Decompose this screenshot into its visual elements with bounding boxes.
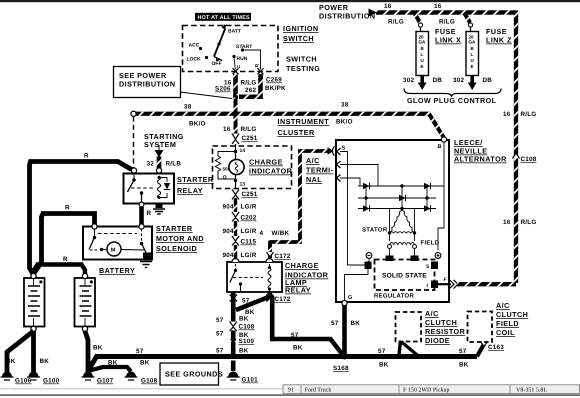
wire relay output right leg merge bbox=[236, 292, 270, 310]
ground G106 bbox=[1, 372, 32, 385]
wire R/LG to regulator F (striped) bbox=[457, 282, 516, 286]
wire BK below bus to G101 bbox=[231, 352, 236, 371]
terminal minus circle bbox=[366, 253, 372, 259]
svg-text:R/LG: R/LG bbox=[388, 19, 404, 26]
svg-text:CLUTCH: CLUTCH bbox=[496, 310, 528, 319]
wire R relay to starter motor bbox=[139, 207, 144, 225]
svg-text:LG/R: LG/R bbox=[241, 204, 257, 211]
splice S168 bbox=[333, 354, 349, 373]
splice S206 bbox=[215, 86, 238, 101]
svg-text:U: U bbox=[421, 58, 424, 63]
footer hairline left bbox=[0, 387, 283, 390]
regulator pad I / F output bbox=[427, 277, 447, 289]
svg-text:C163: C163 bbox=[488, 344, 504, 351]
label FUSE LINK Z bbox=[486, 27, 512, 45]
connector C202 bbox=[232, 212, 257, 222]
wire BK battery2 to G107 bbox=[85, 331, 88, 372]
solenoid contact right bbox=[141, 229, 143, 243]
svg-text:BK: BK bbox=[293, 345, 303, 352]
label POWER DISTRIBUTION bbox=[319, 3, 376, 21]
wire BK/PK from ignition R (striped) bbox=[239, 74, 261, 97]
relay diode bbox=[159, 178, 167, 198]
svg-text:32: 32 bbox=[147, 161, 155, 168]
ground below relay coil bbox=[153, 203, 165, 214]
svg-text:C202: C202 bbox=[241, 215, 257, 222]
wire pin13 out of cluster bbox=[235, 181, 237, 192]
wire 38 BK/O horizontal (striped) bbox=[133, 114, 444, 138]
node B terminal bbox=[438, 137, 447, 150]
svg-text:BK: BK bbox=[108, 360, 118, 367]
svg-text:57: 57 bbox=[242, 298, 250, 305]
svg-text:V8-351 5.8L: V8-351 5.8L bbox=[516, 388, 547, 394]
svg-text:Ω: Ω bbox=[223, 175, 227, 181]
label LEECE/NEVILLE ALTERNATOR bbox=[454, 138, 507, 164]
svg-text:CLUSTER: CLUSTER bbox=[278, 128, 315, 137]
svg-text:L: L bbox=[421, 52, 424, 57]
svg-text:C108: C108 bbox=[521, 156, 537, 163]
svg-text:DISTRIBUTION: DISTRIBUTION bbox=[119, 80, 176, 89]
svg-text:BATTERY: BATTERY bbox=[99, 266, 135, 275]
svg-text:CHARGE: CHARGE bbox=[249, 158, 283, 167]
field winding bbox=[386, 235, 419, 261]
stator phase stubs bbox=[390, 209, 415, 234]
label CHARGE INDICATOR LAMP RELAY bbox=[285, 261, 329, 295]
svg-text:OFF: OFF bbox=[212, 61, 222, 67]
wire BK battery1 to G106 bbox=[7, 331, 34, 372]
svg-text:BATT: BATT bbox=[228, 29, 241, 35]
wire tap2 into rectifier bbox=[340, 165, 378, 187]
svg-text:TERMI-: TERMI- bbox=[306, 166, 334, 175]
wire B terminal to rectifier and + bbox=[438, 142, 444, 250]
svg-text:STATOR: STATOR bbox=[362, 227, 388, 234]
svg-text:16: 16 bbox=[503, 219, 511, 226]
label STARTER MOTOR AND SOLENOID bbox=[156, 224, 204, 253]
label A/C TERMINAL bbox=[306, 156, 334, 184]
svg-text:REGULATOR: REGULATOR bbox=[374, 293, 415, 300]
svg-text:C251: C251 bbox=[242, 191, 258, 198]
svg-text:SWITCH: SWITCH bbox=[283, 34, 314, 43]
wire 904 LG/R C115-relay (striped) bbox=[234, 245, 237, 262]
wire branch to fuse link X bbox=[414, 13, 421, 32]
svg-text:C172: C172 bbox=[275, 296, 291, 303]
wire F output to connector bbox=[438, 283, 451, 285]
solenoid ground pad bbox=[143, 253, 151, 260]
svg-text:R: R bbox=[255, 64, 261, 68]
BATT arm to pivot bbox=[214, 29, 225, 57]
svg-text:904: 904 bbox=[223, 228, 235, 235]
svg-text:302: 302 bbox=[453, 77, 465, 84]
svg-text:LG/R: LG/R bbox=[241, 228, 257, 235]
BATT arrow bbox=[224, 25, 226, 31]
svg-text:S206: S206 bbox=[215, 86, 231, 93]
wire R battery to starter motor bbox=[34, 214, 95, 275]
wire tap3 into rectifier bbox=[340, 178, 360, 186]
svg-text:INDICATOR: INDICATOR bbox=[249, 167, 293, 176]
connector at A/C terminal bbox=[328, 147, 334, 155]
diodes row3 bbox=[363, 205, 370, 212]
svg-text:57: 57 bbox=[216, 348, 224, 355]
svg-text:STARTER: STARTER bbox=[177, 175, 214, 184]
glow plug control brace bbox=[404, 89, 501, 98]
svg-text:C115: C115 bbox=[241, 239, 257, 246]
svg-text:SOLID STATE: SOLID STATE bbox=[382, 273, 427, 280]
svg-text:57: 57 bbox=[136, 348, 144, 355]
A/C clutch field coil dashed box bbox=[468, 312, 493, 343]
connector C108 on right wire bbox=[513, 153, 537, 163]
svg-text:C269: C269 bbox=[266, 77, 282, 84]
svg-text:57: 57 bbox=[216, 331, 224, 338]
callout pointer line to S206 bbox=[180, 92, 232, 99]
fusible link 32 R/LB (striped bar) bbox=[157, 157, 161, 170]
terminal X left bbox=[233, 68, 239, 74]
svg-text:38: 38 bbox=[184, 104, 192, 111]
svg-text:R/LB: R/LB bbox=[166, 161, 182, 168]
svg-text:BK: BK bbox=[239, 348, 249, 355]
wire BK C108 to S100 bbox=[231, 331, 236, 339]
svg-text:57: 57 bbox=[459, 348, 467, 355]
svg-text:F: F bbox=[444, 277, 447, 283]
label CHARGE INDICATOR bbox=[249, 158, 293, 176]
svg-text:BK: BK bbox=[140, 360, 150, 367]
svg-text:14: 14 bbox=[240, 148, 246, 154]
svg-text:GA: GA bbox=[419, 40, 427, 45]
wire fuse X output arrow bbox=[418, 76, 427, 91]
instrument cluster dashed box bbox=[213, 146, 292, 189]
ignition switch dashed box bbox=[183, 26, 279, 72]
connector C251 top bbox=[232, 134, 258, 145]
wire notch to resistor diode bbox=[399, 342, 420, 357]
connector C115 bbox=[232, 236, 256, 246]
svg-text:16: 16 bbox=[503, 111, 511, 118]
svg-text:G: G bbox=[348, 295, 352, 301]
svg-text:BK: BK bbox=[459, 362, 469, 369]
SEE GROUNDS callout box bbox=[160, 363, 223, 385]
connector C172 (into relay coil) bbox=[267, 252, 291, 260]
wire BK G107 to G108 bbox=[88, 367, 131, 372]
svg-text:ALTERNATOR: ALTERNATOR bbox=[454, 155, 507, 164]
label SWITCH TESTING bbox=[286, 55, 320, 74]
svg-text:G101: G101 bbox=[242, 377, 259, 384]
regulator pad A (left) bbox=[365, 262, 372, 270]
svg-text:G100: G100 bbox=[43, 378, 60, 385]
svg-text:START: START bbox=[236, 44, 252, 50]
svg-text:R: R bbox=[63, 256, 68, 263]
wire R/LG right vertical (striped) bbox=[514, 11, 518, 283]
svg-text:G108: G108 bbox=[141, 378, 158, 385]
svg-text:S100: S100 bbox=[239, 338, 255, 345]
svg-text:302: 302 bbox=[403, 77, 415, 84]
svg-text:A/C: A/C bbox=[496, 301, 510, 310]
svg-text:ACC: ACC bbox=[189, 43, 200, 49]
svg-text:G106: G106 bbox=[15, 378, 32, 385]
wire riser to C163 bbox=[477, 344, 484, 357]
connector C163 bbox=[481, 342, 505, 352]
SEE POWER DISTRIBUTION callout box bbox=[114, 67, 181, 98]
svg-text:LINK Z: LINK Z bbox=[486, 36, 512, 45]
charge indicator lamp bbox=[229, 152, 244, 181]
ground G100 bbox=[27, 372, 60, 385]
svg-text:A/C: A/C bbox=[306, 156, 320, 165]
svg-text:DISTRIBUTION: DISTRIBUTION bbox=[319, 12, 376, 21]
svg-text:S: S bbox=[342, 146, 346, 152]
stator delta winding bbox=[389, 207, 414, 234]
wire R/LG 262 from ignition I1 (striped) bbox=[233, 74, 237, 98]
svg-text:R: R bbox=[147, 210, 152, 217]
svg-text:L: L bbox=[471, 52, 474, 57]
svg-text:FIELD: FIELD bbox=[421, 240, 440, 247]
svg-text:S168: S168 bbox=[333, 365, 349, 372]
svg-text:RELAY: RELAY bbox=[177, 186, 203, 195]
wire BK alternator G to S168 bbox=[342, 306, 347, 357]
wire minus to pad A bbox=[348, 258, 370, 265]
ground G101 bbox=[227, 372, 258, 384]
svg-text:BK: BK bbox=[6, 358, 16, 365]
stator tap connectors on left edge bbox=[337, 148, 341, 182]
svg-text:INSTRUMENT: INSTRUMENT bbox=[278, 117, 330, 126]
starting system feed arrow bbox=[155, 145, 164, 158]
wire R/LG ignition feed down to C251 (striped) bbox=[234, 98, 238, 137]
connector C108 (chain) bbox=[230, 322, 255, 332]
svg-text:A/C: A/C bbox=[425, 309, 439, 318]
wire 904 LG/R C251-C202 (striped) bbox=[234, 198, 237, 212]
svg-text:M: M bbox=[111, 248, 116, 254]
wire relay output left leg bbox=[231, 292, 236, 322]
footer bottom rule bbox=[0, 394, 580, 396]
svg-text:E: E bbox=[421, 64, 424, 69]
svg-text:16: 16 bbox=[223, 126, 231, 133]
rectifier diode bridge bbox=[358, 183, 444, 212]
regulator pad S bbox=[426, 262, 438, 271]
svg-text:R/LG: R/LG bbox=[241, 80, 257, 87]
svg-text:SEE GROUNDS: SEE GROUNDS bbox=[165, 370, 223, 379]
battery 1 bbox=[24, 273, 45, 331]
svg-text:904: 904 bbox=[223, 204, 235, 211]
ground G107 bbox=[82, 372, 114, 385]
svg-text:BK: BK bbox=[379, 362, 389, 369]
svg-text:16: 16 bbox=[434, 3, 442, 10]
svg-text:BK/O: BK/O bbox=[189, 121, 206, 128]
svg-text:57: 57 bbox=[331, 320, 339, 327]
svg-text:GA: GA bbox=[469, 40, 477, 45]
label A/C CLUTCH FIELD COIL bbox=[496, 301, 528, 337]
svg-text:BK: BK bbox=[93, 345, 103, 352]
label STARTING SYSTEM bbox=[144, 132, 184, 149]
label INSTRUMENT CLUSTER bbox=[278, 117, 330, 137]
relay coil bbox=[158, 176, 161, 179]
svg-text:LINK X: LINK X bbox=[435, 36, 461, 45]
connector C172 X marks on relay legs bbox=[230, 295, 237, 302]
svg-text:RESISTOR: RESISTOR bbox=[425, 327, 466, 336]
A/C clutch resistor diode dashed box bbox=[396, 312, 422, 342]
svg-text:SYSTEM: SYSTEM bbox=[144, 140, 176, 149]
svg-text:U: U bbox=[471, 58, 474, 63]
svg-text:R: R bbox=[65, 205, 70, 212]
svg-text:BK/PK: BK/PK bbox=[265, 85, 286, 92]
fuse link X bbox=[416, 23, 429, 76]
wire START to R terminal bbox=[243, 50, 261, 70]
terminal X right bbox=[258, 68, 264, 74]
starter relay U1 bbox=[124, 168, 175, 207]
svg-text:CLUTCH: CLUTCH bbox=[425, 318, 457, 327]
wire BK battery1 to G100 bbox=[31, 331, 36, 372]
wire minus branch to G bbox=[345, 269, 369, 301]
svg-text:262: 262 bbox=[245, 87, 257, 94]
svg-text:904: 904 bbox=[223, 252, 235, 259]
svg-text:E: E bbox=[471, 64, 474, 69]
label A/C CLUTCH RESISTOR DIODE bbox=[425, 309, 466, 345]
node G terminal bbox=[342, 295, 352, 306]
ground G108 bbox=[125, 372, 158, 385]
page top border bbox=[0, 0, 580, 2]
svg-text:C172: C172 bbox=[275, 253, 291, 260]
footer table bbox=[283, 385, 580, 394]
label IGNITION SWITCH bbox=[283, 24, 319, 43]
node pin 13 bbox=[234, 179, 245, 188]
svg-text:Ford Truck: Ford Truck bbox=[305, 387, 332, 394]
wire 57 BK relay(C172) to S168 bbox=[272, 296, 344, 357]
svg-text:13: 13 bbox=[240, 182, 246, 188]
svg-text:SOLENOID: SOLENOID bbox=[156, 244, 197, 253]
svg-text:C108: C108 bbox=[239, 324, 255, 331]
svg-text:R: R bbox=[84, 153, 89, 160]
svg-text:MOTOR AND: MOTOR AND bbox=[156, 234, 204, 243]
charge indicator lamp relay K1 bbox=[227, 259, 282, 293]
svg-text:B: B bbox=[438, 144, 442, 150]
svg-text:57: 57 bbox=[291, 332, 299, 339]
fuse link Z bbox=[466, 23, 479, 76]
svg-text:16: 16 bbox=[384, 3, 392, 10]
svg-text:GLOW PLUG CONTROL: GLOW PLUG CONTROL bbox=[407, 96, 497, 105]
svg-text:CHARGE: CHARGE bbox=[285, 261, 319, 270]
motor M bbox=[107, 242, 121, 256]
svg-text:BK: BK bbox=[351, 320, 361, 327]
relay coil bbox=[269, 264, 271, 267]
svg-text:R/LG: R/LG bbox=[521, 111, 537, 118]
HOT AT ALL TIMES box bbox=[195, 13, 251, 21]
off-page arrow from power distribution bbox=[369, 9, 378, 17]
wire 904 LG/R C202-C115 (striped) bbox=[234, 221, 237, 236]
svg-text:BK/O: BK/O bbox=[336, 119, 353, 126]
splice S100 bbox=[231, 337, 255, 345]
ignition switch internals bbox=[187, 24, 264, 74]
wire S tap to regulator bbox=[340, 152, 348, 266]
svg-text:57: 57 bbox=[378, 348, 386, 355]
starter motor and solenoid box bbox=[83, 224, 152, 260]
wire R battery interconnect bbox=[34, 265, 86, 277]
svg-text:BK: BK bbox=[239, 316, 249, 323]
svg-text:R/LG: R/LG bbox=[241, 126, 257, 133]
diodes row2 bbox=[399, 195, 406, 202]
wire BK S100 down across bus bbox=[231, 342, 236, 352]
resistor 500 ohm branch bbox=[215, 152, 235, 182]
stator base junction dots bbox=[388, 231, 391, 234]
diodes row1 bbox=[363, 183, 370, 190]
connector on F wire bbox=[450, 280, 459, 289]
alternator box (Leece/Neville) bbox=[336, 140, 449, 302]
svg-text:LOCK: LOCK bbox=[187, 57, 202, 63]
connector C251 bottom bbox=[232, 190, 258, 200]
svg-text:IGNITION: IGNITION bbox=[283, 24, 319, 33]
svg-text:RELAY: RELAY bbox=[285, 286, 311, 295]
svg-text:BK: BK bbox=[40, 358, 50, 365]
wire R/LG main feed (striped) bbox=[376, 10, 516, 14]
svg-text:W/BK: W/BK bbox=[272, 230, 290, 237]
wire branch to fuse link Z bbox=[464, 13, 471, 32]
svg-text:FIELD: FIELD bbox=[496, 319, 519, 328]
svg-text:DB: DB bbox=[433, 77, 443, 84]
battery 2 bbox=[75, 273, 96, 331]
node open terminal left of BK/O bbox=[131, 111, 136, 116]
svg-text:TESTING: TESTING bbox=[286, 64, 320, 73]
wire into cluster pin 14 bbox=[235, 144, 237, 152]
wire fuse Z output arrow bbox=[468, 76, 477, 91]
svg-text:LG/R: LG/R bbox=[241, 252, 257, 259]
svg-text:4: 4 bbox=[260, 230, 264, 237]
svg-text:HOT AT ALL TIMES: HOT AT ALL TIMES bbox=[198, 15, 251, 21]
solid state regulator dashed box bbox=[375, 260, 435, 291]
svg-text:F 150 2WD Pickup: F 150 2WD Pickup bbox=[403, 387, 450, 394]
svg-text:C251: C251 bbox=[242, 135, 258, 142]
svg-text:DIODE: DIODE bbox=[425, 336, 450, 345]
svg-text:91: 91 bbox=[288, 388, 294, 394]
svg-text:DB: DB bbox=[483, 77, 493, 84]
svg-text:38: 38 bbox=[341, 102, 349, 109]
node pin 14 bbox=[234, 148, 245, 154]
wire 4 W/BK A/C terminal to C172 (striped) bbox=[270, 151, 328, 258]
wire RUN to I1 terminal bbox=[234, 57, 235, 70]
label FUSE LINK X bbox=[435, 27, 461, 45]
terminal plus circle bbox=[435, 253, 441, 259]
svg-text:R/LG: R/LG bbox=[439, 19, 455, 26]
svg-text:R/LG: R/LG bbox=[521, 219, 537, 226]
svg-text:RUN: RUN bbox=[237, 56, 248, 62]
wire R battery to starter relay bbox=[30, 162, 132, 275]
ground below starter motor bbox=[140, 262, 152, 268]
svg-text:STARTER: STARTER bbox=[156, 224, 193, 233]
svg-text:SWITCH: SWITCH bbox=[286, 55, 317, 64]
wire BK main ground bus bottom bbox=[88, 357, 477, 372]
svg-text:G107: G107 bbox=[97, 378, 114, 385]
svg-text:COIL: COIL bbox=[496, 328, 515, 337]
svg-text:57: 57 bbox=[216, 317, 224, 324]
label STARTER RELAY bbox=[177, 175, 214, 195]
wire dashed drop to starter relay bbox=[133, 117, 135, 169]
svg-text:NAL: NAL bbox=[306, 175, 322, 184]
